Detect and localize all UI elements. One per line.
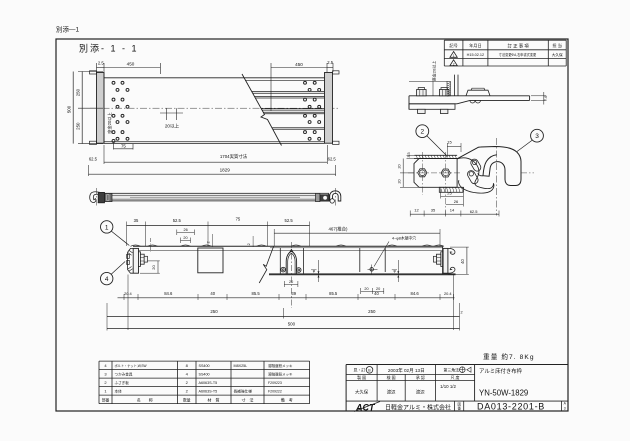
claw apex cap bbox=[290, 249, 293, 251]
svg-text:75: 75 bbox=[236, 217, 241, 222]
dim 26 below bbox=[446, 204, 464, 206]
right end cap bbox=[325, 73, 333, 144]
top edge bumps bbox=[131, 245, 141, 246]
title block col lines row1 bbox=[376, 365, 378, 375]
left end cap bbox=[97, 73, 105, 144]
svg-text:20.4: 20.4 bbox=[444, 291, 452, 296]
svg-text:15: 15 bbox=[447, 140, 452, 145]
hole 4-phi8 mid bbox=[370, 268, 374, 272]
dim 25 below bbox=[441, 195, 464, 197]
svg-text:1704実質寸法: 1704実質寸法 bbox=[220, 153, 248, 160]
right hole pattern bbox=[304, 81, 307, 84]
svg-text:座金20以上: 座金20以上 bbox=[431, 61, 437, 81]
right fitting blobs bbox=[320, 195, 329, 201]
right fitting hex nut bbox=[437, 254, 441, 264]
hex bolt right bbox=[441, 169, 450, 177]
svg-text:ふさぎ板: ふさぎ板 bbox=[115, 380, 130, 385]
svg-text:1: 1 bbox=[453, 54, 455, 58]
svg-text:3: 3 bbox=[564, 406, 566, 410]
svg-text:訂 正 事 項: 訂 正 事 項 bbox=[507, 42, 529, 49]
left hook curl bbox=[90, 192, 101, 203]
svg-text:52.5: 52.5 bbox=[285, 218, 294, 223]
svg-text:40: 40 bbox=[374, 291, 379, 296]
svg-text:20: 20 bbox=[151, 265, 156, 270]
underside left end fitting bbox=[127, 248, 160, 330]
svg-text:別添- 1 - 1: 別添- 1 - 1 bbox=[79, 44, 139, 54]
washer note dim 座金20以上 bbox=[409, 80, 447, 82]
hex bolt left bbox=[418, 169, 427, 177]
left fitting hex nut bbox=[140, 254, 144, 264]
svg-text:84.6: 84.6 bbox=[411, 291, 420, 296]
svg-text:4: 4 bbox=[105, 276, 109, 283]
underside top dim row 35/52.5/75/52.5 bbox=[127, 217, 310, 247]
svg-text:見・訂: 見・訂 bbox=[354, 368, 366, 373]
svg-text:アルミ床付き布枠: アルミ床付き布枠 bbox=[479, 367, 523, 375]
plan outline top edge bbox=[104, 77, 325, 79]
left fitting bolt tip bbox=[144, 256, 147, 262]
flat bar top line bbox=[409, 95, 530, 97]
claw gothic arch inner bbox=[288, 253, 295, 273]
right fitting plate bbox=[443, 248, 448, 273]
svg-text:12: 12 bbox=[414, 208, 419, 213]
underside bottom dim chain bbox=[118, 280, 455, 300]
section with holes right bbox=[359, 248, 361, 272]
svg-text:本体: 本体 bbox=[115, 389, 123, 394]
section block 40 wide bbox=[198, 248, 223, 273]
svg-text:20: 20 bbox=[183, 236, 187, 240]
dim 1829 line bbox=[89, 173, 336, 175]
svg-text:450: 450 bbox=[295, 62, 303, 67]
hook detail view bbox=[408, 138, 534, 216]
dim 15 top bbox=[447, 146, 461, 148]
svg-text:3.5: 3.5 bbox=[407, 152, 411, 157]
dim 20 vertical small bbox=[157, 261, 159, 273]
section claw housing bbox=[279, 248, 281, 274]
hook throat inner line bbox=[478, 173, 483, 176]
left end tabs bbox=[90, 71, 97, 74]
svg-text:溶融亜鉛メッキ: 溶融亜鉛メッキ bbox=[268, 363, 293, 368]
flat bar bottom right bbox=[470, 99, 530, 101]
svg-text:名 称: 名 称 bbox=[137, 396, 153, 402]
right centerline bbox=[335, 188, 337, 207]
svg-text:85.5: 85.5 bbox=[329, 291, 338, 296]
dim 467 bbox=[274, 232, 440, 234]
svg-text:SS400: SS400 bbox=[199, 373, 210, 377]
claw gothic arch outer bbox=[286, 251, 296, 273]
bolt 1 bbox=[417, 90, 427, 96]
svg-text:渡辺: 渡辺 bbox=[387, 389, 396, 396]
svg-text:52.5: 52.5 bbox=[173, 218, 182, 223]
vertical plank lines bbox=[454, 75, 456, 96]
left fitting plate bbox=[133, 248, 138, 273]
svg-text:20以上: 20以上 bbox=[165, 123, 180, 129]
detail plate bbox=[414, 159, 457, 188]
svg-text:渡辺: 渡辺 bbox=[416, 389, 425, 396]
svg-text:1829: 1829 bbox=[220, 167, 231, 172]
plank seam lines right portion bbox=[252, 90, 325, 92]
note 20以上 with bracket bbox=[166, 108, 168, 120]
svg-text:62.5: 62.5 bbox=[89, 156, 98, 161]
title block col lines rows2-3 bbox=[376, 374, 378, 401]
svg-text:62.5: 62.5 bbox=[470, 209, 479, 214]
bolt 2 bbox=[439, 90, 449, 96]
svg-text:大久保: 大久保 bbox=[552, 52, 563, 57]
clamp plate below bbox=[409, 104, 455, 110]
top edge line bbox=[133, 245, 443, 247]
knurl tab bottom bbox=[439, 187, 463, 192]
svg-text:検 図: 検 図 bbox=[387, 375, 396, 380]
svg-text:第三角法: 第三角法 bbox=[444, 368, 460, 373]
drawing frame border bbox=[56, 39, 568, 411]
thin side elevation view bbox=[90, 188, 341, 207]
svg-text:20: 20 bbox=[364, 287, 368, 291]
dim 7.6 bbox=[543, 92, 545, 105]
dim 1704 line bbox=[104, 161, 327, 163]
left fitting blobs bbox=[98, 192, 104, 202]
A3 cell bbox=[560, 401, 562, 411]
title block bbox=[346, 365, 568, 413]
dim 20/20 left bbox=[402, 159, 404, 188]
svg-text:7.6: 7.6 bbox=[544, 96, 548, 101]
detail dims bbox=[397, 140, 499, 217]
svg-text:40: 40 bbox=[210, 291, 215, 296]
svg-text:YN-50W-1829: YN-50W-1829 bbox=[479, 389, 528, 398]
callout 1 bbox=[101, 221, 113, 233]
bottom thick line right of break bbox=[269, 273, 456, 275]
svg-text:記号: 記号 bbox=[449, 42, 457, 49]
latch tab on top bbox=[466, 90, 490, 96]
svg-text:250: 250 bbox=[210, 309, 218, 314]
right fitting end edge bbox=[442, 246, 444, 274]
underside right end fitting bbox=[433, 246, 468, 330]
zuban cell bbox=[454, 401, 456, 411]
svg-text:部番: 部番 bbox=[102, 397, 110, 402]
svg-text:F209223: F209223 bbox=[268, 381, 282, 385]
dim 250+250 row bbox=[107, 316, 460, 318]
svg-text:別添—1: 別添—1 bbox=[56, 25, 80, 34]
callout 4 bbox=[101, 272, 113, 284]
svg-text:大久保: 大久保 bbox=[355, 389, 369, 396]
callout 2 bbox=[416, 125, 429, 138]
latch lobe bbox=[457, 158, 493, 189]
right hook C shape bbox=[330, 191, 341, 201]
svg-text:数量: 数量 bbox=[183, 397, 191, 402]
revision triangle 2 bbox=[450, 60, 457, 66]
left fitting washer plate bbox=[139, 252, 141, 267]
svg-text:84.6: 84.6 bbox=[164, 291, 173, 296]
thick part bottom bbox=[409, 103, 457, 105]
svg-text:250: 250 bbox=[368, 309, 376, 314]
left ext line down bbox=[127, 275, 129, 331]
right ext line down bbox=[453, 275, 455, 331]
dim 40 vertical right bbox=[466, 247, 468, 274]
svg-text:1/10 1/2: 1/10 1/2 bbox=[440, 384, 456, 389]
svg-text:500: 500 bbox=[288, 321, 296, 326]
svg-text:座金20以上: 座金20以上 bbox=[106, 112, 113, 133]
svg-text:日軽金アルミ・株式会社: 日軽金アルミ・株式会社 bbox=[385, 403, 451, 411]
svg-text:重量 約7. 8Kg: 重量 約7. 8Kg bbox=[483, 352, 535, 361]
svg-text:26: 26 bbox=[454, 199, 459, 204]
svg-text:担 当: 担 当 bbox=[552, 42, 562, 49]
claw centerline vertical bbox=[290, 242, 292, 308]
svg-text:1: 1 bbox=[105, 224, 109, 231]
svg-text:20: 20 bbox=[289, 280, 293, 284]
small dims 26/20 above underside bbox=[177, 228, 253, 247]
plan view group bbox=[67, 60, 340, 176]
svg-text:SS400: SS400 bbox=[199, 364, 210, 368]
left hole pattern bbox=[112, 81, 115, 84]
svg-text:図: 図 bbox=[458, 402, 462, 406]
svg-text:承 認: 承 認 bbox=[416, 375, 425, 380]
svg-text:つかみ金具: つかみ金具 bbox=[115, 372, 133, 377]
right end tabs bbox=[333, 71, 340, 74]
svg-text:2: 2 bbox=[206, 241, 210, 243]
svg-text:467(推合): 467(推合) bbox=[328, 225, 348, 232]
svg-text:H15.02.12: H15.02.12 bbox=[467, 53, 485, 57]
hook fitting side view bbox=[409, 61, 548, 114]
svg-text:2: 2 bbox=[420, 129, 424, 136]
svg-text:26: 26 bbox=[183, 228, 187, 232]
claw small circles bbox=[281, 267, 286, 272]
thickness phi mark right bbox=[397, 260, 399, 282]
detail vertical centerline bbox=[496, 138, 498, 216]
right fitting washer plate bbox=[441, 252, 443, 267]
svg-text:製 図: 製 図 bbox=[357, 375, 366, 380]
svg-text:500: 500 bbox=[67, 105, 72, 113]
left spring washers bbox=[127, 254, 130, 258]
latch slot lower bbox=[468, 171, 479, 184]
svg-text:4−φ8木端中穴: 4−φ8木端中穴 bbox=[392, 236, 416, 241]
side bar body bbox=[101, 193, 329, 201]
parts list table bbox=[99, 361, 310, 404]
right clip bracket bbox=[448, 248, 455, 254]
plan outline bottom edge bbox=[104, 142, 325, 144]
svg-text:備 考: 備 考 bbox=[281, 396, 293, 402]
svg-text:250: 250 bbox=[76, 122, 81, 130]
svg-text:材 質: 材 質 bbox=[208, 396, 220, 402]
svg-text:40: 40 bbox=[460, 259, 465, 264]
right latch circle bbox=[330, 199, 334, 203]
bumps under bar bbox=[470, 100, 475, 103]
revision triangle 1 bbox=[450, 52, 457, 58]
callout 3 bbox=[531, 129, 544, 142]
dim 20/20 small center-right bbox=[361, 291, 384, 293]
svg-text:年月日: 年月日 bbox=[469, 42, 482, 49]
left centerline bbox=[95, 188, 97, 206]
svg-text:20: 20 bbox=[376, 287, 380, 291]
dim 250/250 vertical left bbox=[81, 72, 83, 144]
svg-text:250: 250 bbox=[76, 88, 81, 96]
hook body outline bbox=[457, 147, 521, 186]
svg-text:62.5: 62.5 bbox=[328, 156, 337, 161]
plan centerline bbox=[90, 107, 340, 109]
svg-text:2.5: 2.5 bbox=[98, 61, 104, 66]
break line in underside view bbox=[259, 247, 273, 284]
svg-text:寸法変更ΦA,右申書式変更: 寸法変更ΦA,右申書式変更 bbox=[499, 52, 537, 57]
svg-text:尺 度: 尺 度 bbox=[451, 375, 460, 380]
svg-text:450: 450 bbox=[127, 62, 135, 67]
dim 500 row bbox=[107, 328, 460, 330]
svg-text:長補強仕様: 長補強仕様 bbox=[234, 389, 253, 394]
svg-text:A6063S-T5: A6063S-T5 bbox=[199, 390, 218, 394]
svg-text:25: 25 bbox=[447, 191, 452, 196]
right portion strip top line bbox=[270, 247, 443, 249]
bump centerline left bbox=[149, 238, 151, 252]
svg-text:A6063S-T5: A6063S-T5 bbox=[199, 381, 218, 385]
left clip bracket bbox=[128, 248, 134, 273]
detail horizontal centerline ext bbox=[521, 172, 534, 174]
svg-text:35: 35 bbox=[134, 218, 139, 223]
svg-text:溶融亜鉛メッキ: 溶融亜鉛メッキ bbox=[268, 372, 293, 377]
dim 3.5 left bbox=[407, 154, 417, 156]
svg-text:35: 35 bbox=[431, 208, 436, 213]
svg-text:3: 3 bbox=[535, 133, 539, 140]
svg-text:2: 2 bbox=[453, 62, 455, 66]
svg-text:DA013-2201-B: DA013-2201-B bbox=[477, 401, 545, 411]
svg-text:39: 39 bbox=[291, 291, 296, 296]
svg-text:75: 75 bbox=[121, 143, 126, 148]
svg-text:F209222: F209222 bbox=[268, 390, 282, 394]
svg-text:20.4: 20.4 bbox=[124, 291, 132, 296]
knurl strip top bbox=[415, 154, 458, 156]
break line diagonal bbox=[242, 74, 282, 146]
bottom chain 12/35/14/62.5 bbox=[410, 213, 499, 215]
hatched plank edge section bbox=[447, 81, 450, 95]
svg-text:M8X25L: M8X25L bbox=[234, 364, 248, 368]
svg-text:2: 2 bbox=[460, 311, 462, 315]
svg-text:番: 番 bbox=[458, 406, 462, 411]
revision table bbox=[444, 40, 566, 66]
svg-text:85.5: 85.5 bbox=[252, 291, 261, 296]
dim 500 vertical left bbox=[72, 72, 74, 144]
svg-text:ボルト・ナット,W,SW: ボルト・ナット,W,SW bbox=[115, 363, 147, 368]
centerlines through bolts bbox=[408, 172, 462, 174]
underside elevation view bbox=[131, 242, 456, 308]
latch slot upper bbox=[471, 159, 481, 171]
thickness phi mark left bbox=[318, 260, 320, 282]
svg-text:2: 2 bbox=[247, 243, 251, 245]
svg-text:2003年 02月 13日: 2003年 02月 13日 bbox=[388, 367, 425, 374]
svg-text:寸 法: 寸 法 bbox=[242, 396, 254, 402]
right fitting bolt tip bbox=[433, 256, 436, 262]
dim 20 small center claw bbox=[284, 284, 298, 286]
svg-text:14: 14 bbox=[450, 208, 455, 213]
